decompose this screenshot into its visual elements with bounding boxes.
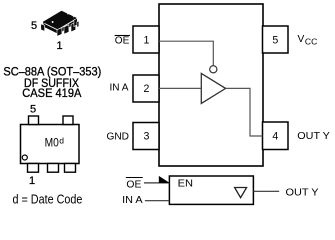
- package top edge lead notches: [67, 12, 68, 14]
- svg-text:2: 2: [144, 83, 150, 95]
- package pin1 dot: [52, 21, 54, 23]
- pin 2 box: [133, 75, 159, 102]
- case outline bottom lead 3: [65, 164, 76, 173]
- OE wire: [144, 182, 169, 184]
- package front leads: [57, 28, 62, 37]
- svg-text:CC: CC: [305, 38, 317, 47]
- svg-text:GND: GND: [107, 131, 130, 142]
- case outline top lead 4: [63, 116, 73, 125]
- svg-text:1: 1: [56, 40, 62, 52]
- svg-text:IN A: IN A: [110, 83, 129, 94]
- svg-text:d: d: [59, 136, 64, 146]
- output wire: [253, 190, 279, 192]
- wire buffer output to pin4: [226, 88, 263, 136]
- pin 5 box: [263, 26, 289, 53]
- enable bubble: [210, 66, 217, 73]
- svg-text:V: V: [298, 34, 305, 45]
- svg-text:IN A: IN A: [122, 195, 143, 206]
- case outline bottom lead 1: [28, 164, 39, 173]
- svg-text:1: 1: [29, 175, 35, 187]
- wire pin1 to enable bubble: [159, 41, 213, 65]
- pin 3 box: [133, 123, 159, 150]
- svg-text:EN: EN: [178, 178, 193, 189]
- svg-text:3: 3: [144, 131, 150, 143]
- case outline top lead 5: [29, 116, 39, 125]
- tri-state output triangle: [235, 188, 247, 198]
- OE overline (logic diagram): [126, 177, 143, 179]
- pin 4 box: [263, 122, 289, 150]
- package lead 5 (left): [41, 24, 45, 32]
- svg-text:d = Date Code: d = Date Code: [13, 192, 83, 206]
- svg-text:5: 5: [30, 103, 36, 115]
- svg-text:OE: OE: [126, 179, 141, 190]
- package right leads: [74, 18, 77, 26]
- pin 1 box: [133, 26, 159, 53]
- svg-text:OUT Y: OUT Y: [286, 187, 319, 198]
- svg-text:M0: M0: [45, 138, 59, 150]
- buffer triangle: [201, 73, 225, 103]
- svg-text:5: 5: [31, 20, 37, 32]
- svg-text:CASE 419A: CASE 419A: [22, 86, 82, 100]
- svg-text:5: 5: [272, 34, 278, 46]
- case outline body: [21, 125, 80, 164]
- IN A wire: [145, 200, 170, 202]
- svg-text:OE: OE: [115, 35, 130, 46]
- active-low polarity arrow: [159, 176, 170, 183]
- logic symbol box: [169, 176, 253, 204]
- IC body U1: [159, 4, 263, 166]
- case pin 1 indicator: [22, 155, 27, 160]
- package 3D body (SC-88A isometric view): [41, 11, 79, 37]
- svg-text:OUT Y: OUT Y: [297, 131, 330, 142]
- svg-text:4: 4: [272, 130, 278, 142]
- OE overline: [115, 35, 130, 37]
- svg-text:1: 1: [144, 34, 150, 46]
- case outline bottom lead 2: [48, 164, 59, 173]
- wire pin2 to buffer input: [159, 87, 201, 89]
